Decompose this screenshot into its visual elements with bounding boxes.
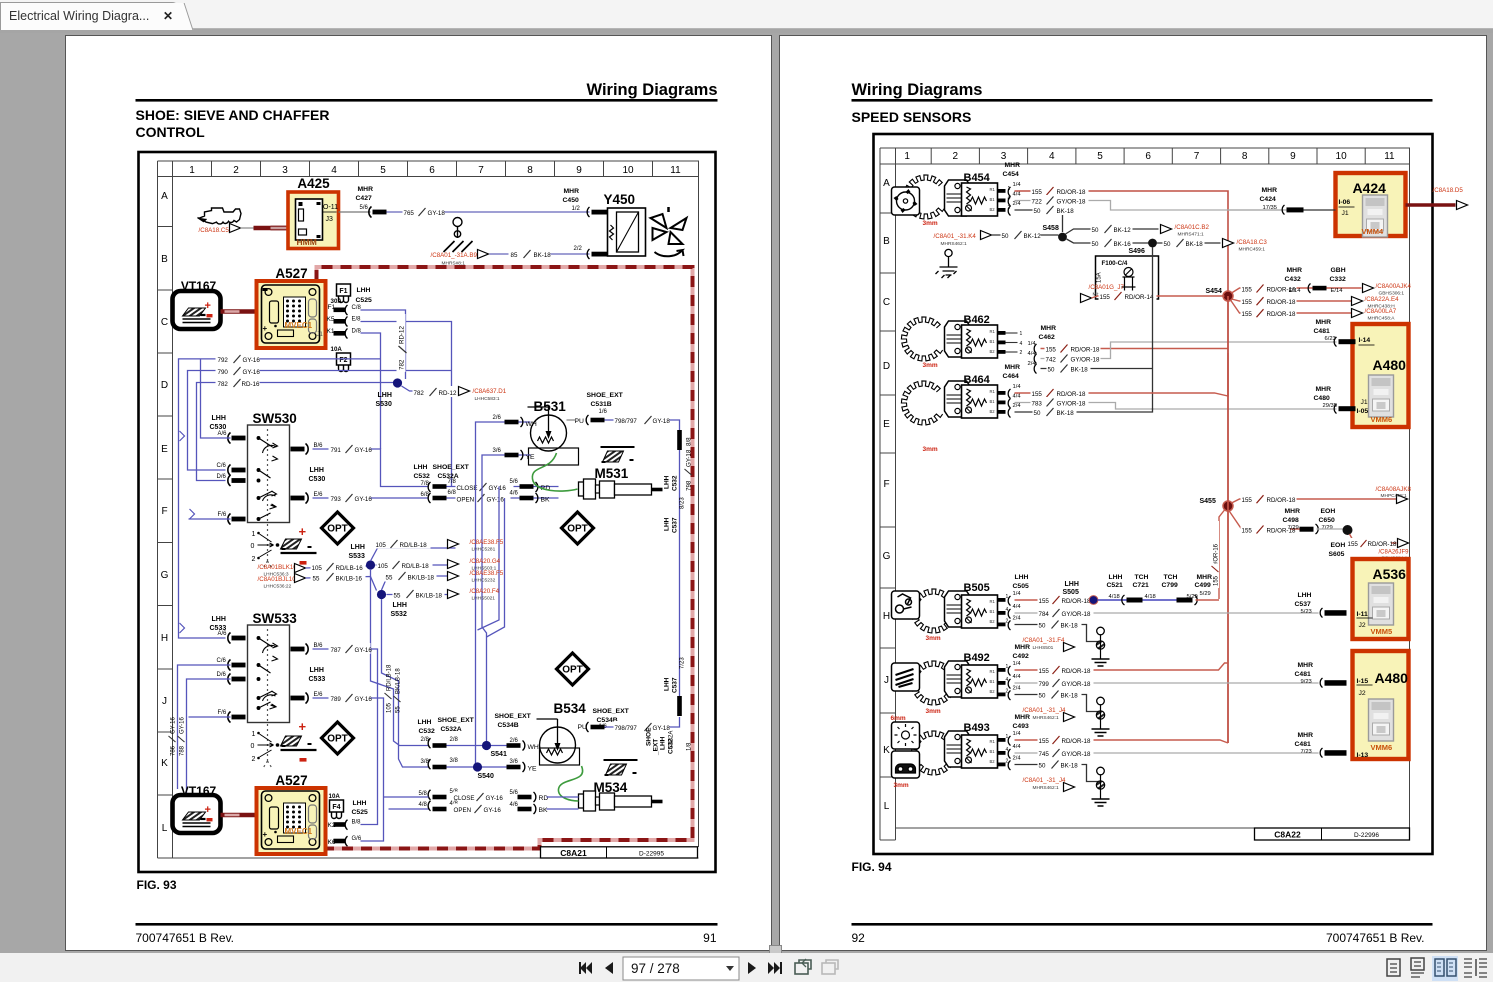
svg-text:J: J bbox=[884, 675, 889, 686]
svg-text:MHR: MHR bbox=[564, 188, 580, 195]
wire 50 BK-18 ground (B492) bbox=[1015, 695, 1101, 712]
svg-text:Wiring Diagrams: Wiring Diagrams bbox=[852, 81, 983, 99]
svg-text:D/6: D/6 bbox=[217, 474, 227, 480]
svg-text:RD/OR-18: RD/OR-18 bbox=[1057, 189, 1086, 196]
svg-text:7/23: 7/23 bbox=[1301, 749, 1312, 755]
svg-text:O-11: O-11 bbox=[323, 204, 338, 211]
svg-text:/C8AE38.F5: /C8AE38.F5 bbox=[470, 539, 504, 546]
svg-text:1: 1 bbox=[189, 165, 195, 176]
svg-text:C532: C532 bbox=[419, 728, 435, 735]
svg-text:LHHC5232: LHHC5232 bbox=[472, 578, 496, 584]
svg-text:H: H bbox=[883, 611, 890, 622]
svg-text:F2: F2 bbox=[339, 357, 347, 364]
wire 783 GY/OR-18 bbox=[1015, 403, 1337, 410]
svg-text:4/4: 4/4 bbox=[1013, 394, 1022, 400]
svg-text:K: K bbox=[883, 745, 890, 756]
rotated stack lower bbox=[677, 696, 682, 716]
svg-text:C/8: C/8 bbox=[352, 305, 362, 311]
svg-text:C650: C650 bbox=[1319, 517, 1335, 524]
svg-text:D-22996: D-22996 bbox=[1354, 832, 1379, 839]
svg-text:RD/LB-18: RD/LB-18 bbox=[400, 542, 428, 549]
svg-text:155: 155 bbox=[1242, 497, 1253, 504]
svg-text:SHOE_EXT: SHOE_EXT bbox=[587, 392, 624, 399]
svg-text:GY-18: GY-18 bbox=[653, 418, 671, 425]
svg-text:GY-16: GY-16 bbox=[171, 717, 177, 734]
svg-text:S533: S533 bbox=[349, 553, 365, 560]
svg-text:2: 2 bbox=[252, 756, 256, 763]
svg-text:4/6: 4/6 bbox=[510, 802, 519, 808]
speed sensor B454 group bbox=[903, 175, 944, 219]
svg-text:L: L bbox=[162, 823, 168, 834]
rotated labels on verticals bbox=[385, 664, 393, 713]
svg-text:LHHC5281: LHHC5281 bbox=[472, 547, 496, 553]
connector MHR C481 (I-15) bbox=[1295, 662, 1314, 678]
svg-text:HMM: HMM bbox=[297, 237, 317, 247]
wire K1-D8 to 792 run bbox=[361, 333, 381, 449]
svg-text:155: 155 bbox=[1032, 391, 1043, 398]
pin E/6 wire 793 bbox=[291, 493, 309, 504]
svg-text:B493: B493 bbox=[964, 722, 990, 734]
svg-text:C450: C450 bbox=[563, 197, 579, 204]
wire 722 GY/OR-18 bbox=[1015, 201, 1298, 211]
svg-text:BK: BK bbox=[539, 807, 549, 814]
svg-text:S605: S605 bbox=[1329, 551, 1345, 558]
svg-text:SW530: SW530 bbox=[253, 411, 297, 426]
svg-text:8: 8 bbox=[1242, 151, 1248, 162]
svg-text:4/4: 4/4 bbox=[1013, 192, 1022, 198]
connector MHR C450 bbox=[563, 188, 580, 204]
svg-text:155: 155 bbox=[1242, 528, 1253, 535]
svg-text:3: 3 bbox=[282, 165, 288, 176]
svg-text:S541: S541 bbox=[491, 751, 507, 758]
svg-text:4/4: 4/4 bbox=[1013, 744, 1022, 750]
switch SW533 bbox=[210, 616, 227, 632]
svg-text:PU: PU bbox=[575, 418, 585, 425]
wire 155 (B464) to bus bbox=[1015, 353, 1229, 396]
wire battery feed to A425 bbox=[241, 227, 255, 229]
wire 50 BK-18 (B454) bbox=[1015, 210, 1063, 232]
svg-text:GY/OR-18: GY/OR-18 bbox=[1062, 751, 1091, 758]
wire 745 GY/OR-18 to A480 I-13 bbox=[1015, 752, 1319, 754]
svg-text:EOH: EOH bbox=[1331, 542, 1346, 549]
svg-text:3/8: 3/8 bbox=[450, 758, 459, 764]
wires C/6 D/6 down to lower close/open bbox=[178, 665, 231, 799]
wire 790 GY-16 bbox=[188, 371, 452, 471]
svg-text:J1: J1 bbox=[1342, 210, 1349, 217]
svg-text:/C8A20.F4: /C8A20.F4 bbox=[470, 588, 500, 595]
svg-text:SHOE_EXT: SHOE_EXT bbox=[593, 708, 630, 715]
connector MHR C499 bbox=[1195, 574, 1213, 589]
svg-text:1: 1 bbox=[252, 531, 256, 538]
svg-text:VMM4: VMM4 bbox=[1362, 227, 1384, 236]
svg-text:4/4: 4/4 bbox=[1013, 604, 1022, 610]
svg-text:LHHS5021: LHHS5021 bbox=[472, 596, 496, 602]
wire 50 BK-18 ground (B505) bbox=[1015, 625, 1101, 642]
svg-text:A425: A425 bbox=[297, 176, 330, 191]
svg-text:B492: B492 bbox=[964, 652, 990, 664]
A424 output wire bbox=[1406, 203, 1456, 207]
svg-text:55: 55 bbox=[386, 575, 393, 582]
svg-text:1/2: 1/2 bbox=[572, 206, 581, 212]
svg-text:2/6: 2/6 bbox=[510, 738, 519, 744]
svg-text:SHOE: SHOE bbox=[646, 727, 653, 746]
combine harvester icon bbox=[198, 208, 242, 224]
svg-text:10: 10 bbox=[622, 165, 634, 176]
svg-text:155: 155 bbox=[1039, 738, 1050, 745]
svg-text:/C8A01_-31_J4: /C8A01_-31_J4 bbox=[1023, 777, 1067, 784]
svg-text:A527: A527 bbox=[275, 773, 307, 788]
svg-text:Wiring Diagrams: Wiring Diagrams bbox=[587, 81, 718, 99]
svg-text:BK-12: BK-12 bbox=[1024, 233, 1042, 240]
svg-text:10: 10 bbox=[1336, 151, 1348, 162]
svg-text:RD/OR-18: RD/OR-18 bbox=[1057, 391, 1086, 398]
svg-text:+: + bbox=[263, 324, 268, 333]
svg-text:C481: C481 bbox=[1295, 671, 1311, 678]
svg-text:GY-16: GY-16 bbox=[355, 647, 373, 654]
svg-text:BK-18: BK-18 bbox=[1057, 208, 1075, 215]
svg-text:1/4: 1/4 bbox=[1013, 731, 1022, 737]
svg-text:RD/OR-18: RD/OR-18 bbox=[1267, 311, 1296, 318]
svg-text:/C8A01_-31A.B9: /C8A01_-31A.B9 bbox=[431, 252, 478, 259]
svg-text:/C8A18.D5: /C8A18.D5 bbox=[1433, 187, 1464, 194]
svg-text:2/2: 2/2 bbox=[574, 246, 583, 252]
svg-text:C424: C424 bbox=[1260, 196, 1276, 203]
svg-text:C505: C505 bbox=[1013, 583, 1029, 590]
connector MHR C480 (I-05) bbox=[1314, 386, 1332, 402]
title block C8A22 bbox=[1255, 828, 1410, 840]
svg-text:11: 11 bbox=[670, 165, 681, 176]
svg-text:F/6: F/6 bbox=[218, 710, 227, 716]
svg-text:105: 105 bbox=[312, 565, 323, 572]
svg-text:BK-18: BK-18 bbox=[1186, 241, 1204, 248]
option diamond bbox=[322, 512, 354, 544]
grid row letters bbox=[161, 191, 169, 834]
svg-text:7/23: 7/23 bbox=[680, 657, 686, 669]
svg-text:97 / 278: 97 / 278 bbox=[631, 961, 680, 976]
svg-text:5/6: 5/6 bbox=[510, 790, 519, 796]
svg-text:50: 50 bbox=[1092, 227, 1099, 234]
svg-text:C530: C530 bbox=[309, 476, 326, 483]
ground node (row B) bbox=[444, 218, 473, 253]
wire 784 GY/OR-18 to A536 bbox=[1015, 612, 1319, 614]
svg-text:7/29: 7/29 bbox=[1322, 525, 1333, 531]
svg-text:3mm: 3mm bbox=[894, 782, 909, 789]
svg-text:4: 4 bbox=[1020, 341, 1023, 347]
right page bbox=[779, 35, 1487, 951]
bottom toolbar bbox=[0, 953, 1493, 982]
junction S530 bbox=[393, 378, 402, 387]
svg-text:MHR: MHR bbox=[1262, 187, 1278, 194]
svg-text:C464: C464 bbox=[1003, 373, 1019, 380]
wire K5-E8 down to CLOSE bbox=[361, 322, 452, 488]
footer rule bbox=[136, 923, 718, 926]
diagram outer frame bbox=[874, 134, 1433, 854]
svg-text:I-14: I-14 bbox=[1359, 337, 1371, 344]
svg-text:C427: C427 bbox=[356, 195, 372, 202]
svg-text:4/18: 4/18 bbox=[1109, 594, 1120, 600]
svg-text:E/14: E/14 bbox=[1289, 288, 1302, 294]
arrow into A425 bbox=[230, 224, 241, 233]
svg-text:/C8A01C.B2: /C8A01C.B2 bbox=[1175, 224, 1210, 231]
svg-text:SHOE_EXT: SHOE_EXT bbox=[438, 717, 475, 724]
wire 55 BK/LB-18 (lower) bbox=[387, 594, 456, 596]
svg-text:LHH: LHH bbox=[414, 464, 428, 471]
S454 branch 3 bbox=[1231, 300, 1352, 313]
svg-text:788: 788 bbox=[180, 745, 186, 756]
grid column numbers bbox=[189, 165, 681, 176]
svg-text:E: E bbox=[161, 444, 168, 455]
svg-text:1: 1 bbox=[252, 731, 256, 738]
S455 branch right bbox=[1232, 499, 1397, 503]
svg-text:B: B bbox=[883, 236, 890, 247]
svg-text:CLOSE: CLOSE bbox=[457, 485, 478, 492]
svg-text:C332: C332 bbox=[1330, 276, 1346, 283]
left page bbox=[65, 35, 772, 951]
svg-text:J: J bbox=[162, 696, 167, 707]
svg-text:LHH: LHH bbox=[310, 467, 324, 474]
svg-text:4/4: 4/4 bbox=[1013, 674, 1022, 680]
splice LHH S533 bbox=[349, 544, 365, 560]
S454 branch 2 bbox=[1232, 299, 1352, 301]
svg-text:A: A bbox=[883, 178, 890, 189]
svg-text:MHRS462:1: MHRS462:1 bbox=[1033, 715, 1059, 721]
svg-text:LHH: LHH bbox=[212, 616, 226, 623]
svg-text:S540: S540 bbox=[478, 773, 494, 780]
svg-text:105: 105 bbox=[378, 563, 389, 570]
svg-text:FIG. 94: FIG. 94 bbox=[852, 860, 892, 874]
svg-text:I-13: I-13 bbox=[1357, 752, 1369, 759]
svg-text:50: 50 bbox=[1034, 410, 1041, 417]
svg-text:VMM6: VMM6 bbox=[1371, 415, 1393, 424]
svg-text:GBH: GBH bbox=[1331, 267, 1346, 274]
svg-text:50: 50 bbox=[1039, 623, 1046, 630]
svg-text:798: 798 bbox=[686, 480, 693, 491]
svg-text:6mm: 6mm bbox=[891, 715, 906, 722]
svg-text:GY-16: GY-16 bbox=[355, 496, 373, 503]
svg-text:LHH: LHH bbox=[664, 475, 671, 489]
svg-text:MHPC498:1: MHPC498:1 bbox=[1381, 493, 1407, 499]
wire 55 BK/LB-18 (upper) bbox=[382, 576, 456, 590]
svg-text:C480: C480 bbox=[1314, 395, 1330, 402]
svg-text:155: 155 bbox=[1100, 294, 1111, 301]
svg-text:50: 50 bbox=[1034, 208, 1041, 215]
svg-text:TCH: TCH bbox=[1164, 574, 1178, 581]
svg-text:798/797: 798/797 bbox=[615, 725, 638, 732]
svg-text:C454: C454 bbox=[1003, 171, 1019, 178]
svg-text:15A: 15A bbox=[1097, 272, 1103, 283]
svg-text:LHH: LHH bbox=[418, 719, 432, 726]
svg-text:765: 765 bbox=[404, 210, 415, 217]
BK vertical from S496 bbox=[1152, 247, 1154, 410]
svg-text:S454: S454 bbox=[1206, 288, 1222, 295]
svg-text:SHOE_EXT: SHOE_EXT bbox=[495, 713, 532, 720]
svg-text:D/6: D/6 bbox=[217, 672, 227, 678]
pin B/6 wire 791 bbox=[291, 444, 309, 455]
pdf viewer tab bar bbox=[0, 0, 1493, 33]
footer rule bbox=[852, 923, 1433, 926]
svg-text:782: 782 bbox=[399, 359, 406, 370]
svg-text:_EXT: _EXT bbox=[653, 739, 660, 756]
pin B/6 wire 787 bbox=[291, 644, 309, 655]
svg-text:RD/OR-18: RD/OR-18 bbox=[1062, 668, 1091, 675]
svg-text:S530: S530 bbox=[376, 401, 392, 408]
svg-text:2: 2 bbox=[1020, 350, 1023, 356]
svg-text:B505: B505 bbox=[964, 582, 990, 594]
speed sensor B505 group bbox=[911, 589, 952, 633]
svg-text:MHR: MHR bbox=[1298, 732, 1314, 739]
ground (B505) bbox=[1092, 627, 1110, 666]
junction S496 bbox=[1148, 239, 1157, 248]
svg-text:BK-18: BK-18 bbox=[1061, 763, 1079, 770]
svg-text:F100-C/4: F100-C/4 bbox=[1102, 260, 1128, 267]
right edge rotated connector stack (upper) bbox=[674, 430, 685, 455]
svg-text:105: 105 bbox=[387, 702, 393, 713]
svg-text:SW533: SW533 bbox=[253, 611, 298, 626]
svg-text:MHR: MHR bbox=[1005, 364, 1021, 371]
svg-text:1: 1 bbox=[1020, 331, 1023, 337]
svg-text:E/6: E/6 bbox=[314, 692, 324, 698]
svg-text:105: 105 bbox=[376, 542, 387, 549]
svg-text:1/4: 1/4 bbox=[1013, 384, 1022, 390]
svg-text:EOH: EOH bbox=[1321, 508, 1336, 515]
svg-text:B534: B534 bbox=[554, 701, 587, 716]
svg-text:50: 50 bbox=[1092, 241, 1099, 248]
svg-text:/C8A01G_J7: /C8A01G_J7 bbox=[1089, 284, 1125, 291]
svg-text:C8A22: C8A22 bbox=[1274, 830, 1301, 840]
svg-text:4: 4 bbox=[1049, 151, 1055, 162]
svg-text:4: 4 bbox=[331, 165, 337, 176]
svg-text:4/18: 4/18 bbox=[1145, 594, 1156, 600]
svg-text:155: 155 bbox=[1242, 311, 1253, 318]
svg-text:1/4: 1/4 bbox=[1013, 661, 1022, 667]
svg-text:BK-18: BK-18 bbox=[1061, 623, 1079, 630]
wire 782 RD-12 to arrow bbox=[402, 386, 455, 391]
wire 798/797 GY-18 bbox=[605, 420, 680, 430]
svg-text:S532: S532 bbox=[391, 611, 407, 618]
svg-text:GY-16: GY-16 bbox=[487, 497, 505, 504]
svg-text:A527: A527 bbox=[275, 266, 307, 281]
svg-text:GY/OR-18: GY/OR-18 bbox=[1057, 401, 1086, 408]
svg-text:S505: S505 bbox=[1063, 589, 1079, 596]
svg-text:GY-16: GY-16 bbox=[243, 357, 261, 364]
svg-text:A480: A480 bbox=[1373, 357, 1407, 373]
svg-text:J3: J3 bbox=[326, 216, 334, 223]
svg-text:6: 6 bbox=[1145, 151, 1151, 162]
svg-text:91: 91 bbox=[703, 931, 717, 945]
fuse F1 30A bbox=[337, 284, 351, 303]
svg-text:7: 7 bbox=[1194, 151, 1200, 162]
connector MHR C427 bbox=[356, 186, 374, 202]
svg-text:5/23: 5/23 bbox=[1301, 609, 1312, 615]
svg-text:3/6: 3/6 bbox=[493, 448, 502, 454]
wire 155 (B505) to S505 bbox=[1015, 599, 1094, 601]
S455 drop to C499/B505 row bbox=[1219, 510, 1225, 599]
svg-text:/C8A08AJK8: /C8A08AJK8 bbox=[1376, 486, 1412, 493]
svg-text:TCH: TCH bbox=[1135, 574, 1149, 581]
wire 799 GY/OR-18 to A480 I-15 bbox=[1015, 682, 1319, 684]
svg-text:793: 793 bbox=[331, 496, 342, 503]
svg-text:LHHS501: LHHS501 bbox=[1033, 645, 1054, 651]
svg-text:CONTROL: CONTROL bbox=[136, 124, 206, 140]
riser A/6 up bbox=[189, 359, 231, 519]
svg-text:0: 0 bbox=[251, 743, 255, 750]
svg-text:2: 2 bbox=[233, 165, 239, 176]
svg-text:OPEN: OPEN bbox=[454, 807, 472, 814]
svg-text:2/4: 2/4 bbox=[1013, 201, 1022, 207]
svg-text:LHH: LHH bbox=[1298, 592, 1312, 599]
svg-text:J1: J1 bbox=[1361, 399, 1368, 406]
svg-text:2/4: 2/4 bbox=[1013, 616, 1022, 622]
svg-text:I-15: I-15 bbox=[1357, 678, 1369, 685]
svg-text:E/6: E/6 bbox=[314, 492, 324, 498]
svg-text:Y450: Y450 bbox=[604, 192, 636, 207]
svg-text:/C8A18.C5: /C8A18.C5 bbox=[199, 227, 230, 234]
svg-text:RD/OR-18: RD/OR-18 bbox=[1062, 738, 1091, 745]
svg-text:BK-18: BK-18 bbox=[1061, 693, 1079, 700]
CAN bus dashed (dark red) bbox=[317, 267, 693, 849]
svg-text:C532A: C532A bbox=[669, 731, 675, 749]
svg-text:C492: C492 bbox=[1013, 653, 1029, 660]
svg-text:SHOE: SIEVE AND CHAFFER: SHOE: SIEVE AND CHAFFER bbox=[136, 107, 330, 123]
svg-text:LHH: LHH bbox=[1015, 574, 1029, 581]
wire 50 BK-18 (B464) bbox=[1015, 408, 1153, 412]
svg-text:10A: 10A bbox=[331, 346, 343, 353]
svg-text:/C8A01_-31_J4: /C8A01_-31_J4 bbox=[1023, 707, 1067, 714]
svg-text:C537: C537 bbox=[672, 517, 679, 533]
svg-text:50: 50 bbox=[1039, 763, 1046, 770]
svg-text:C498: C498 bbox=[1283, 517, 1299, 524]
fan icon bbox=[651, 207, 687, 256]
svg-text:S455: S455 bbox=[1200, 498, 1216, 505]
svg-text:C532: C532 bbox=[672, 475, 679, 491]
svg-text:RD/LB-16: RD/LB-16 bbox=[336, 565, 364, 572]
svg-text:155: 155 bbox=[1348, 541, 1359, 548]
svg-text:LHH: LHH bbox=[1109, 574, 1123, 581]
connector MHR C462 bbox=[1039, 325, 1057, 341]
svg-text:C533: C533 bbox=[309, 676, 326, 683]
speed sensor B492 group bbox=[911, 661, 952, 705]
svg-text:11: 11 bbox=[1384, 151, 1395, 162]
verticals from CLOSE/OPEN to lower bbox=[478, 487, 505, 638]
svg-text:BK/LB-18: BK/LB-18 bbox=[396, 668, 402, 694]
svg-text:10A: 10A bbox=[329, 793, 341, 800]
switch SW530 bbox=[210, 415, 227, 431]
svg-text:3/6: 3/6 bbox=[510, 759, 519, 765]
svg-text:E/14: E/14 bbox=[1331, 288, 1344, 294]
svg-text:5/6: 5/6 bbox=[360, 205, 369, 211]
svg-text:A480: A480 bbox=[1375, 670, 1409, 686]
svg-text:C/6: C/6 bbox=[217, 463, 227, 469]
wire 798/797 GY-18 (lower) bbox=[605, 717, 680, 727]
svg-text:M531: M531 bbox=[595, 466, 629, 481]
pins B454 bbox=[998, 189, 1006, 193]
svg-text:MHRS471:1: MHRS471:1 bbox=[1178, 232, 1204, 238]
svg-text:50: 50 bbox=[1164, 241, 1171, 248]
svg-text:799: 799 bbox=[1039, 681, 1050, 688]
svg-text:+: + bbox=[299, 719, 307, 734]
svg-text:FIG. 93: FIG. 93 bbox=[137, 878, 177, 892]
svg-text:J1: J1 bbox=[317, 332, 324, 338]
wire 55 BK/LB-16 bbox=[306, 577, 377, 591]
svg-text:C499: C499 bbox=[1195, 582, 1211, 589]
wire 50 BK-18 to /C8A18.C3 bbox=[1157, 242, 1221, 244]
svg-text:MHR: MHR bbox=[1285, 508, 1301, 515]
svg-text:4/8: 4/8 bbox=[419, 802, 428, 808]
speed sensor B464 group bbox=[901, 381, 942, 425]
wire 765 GY-18 bbox=[387, 211, 590, 213]
pin E/6 wire 789 bbox=[291, 693, 309, 704]
chevrons bbox=[180, 431, 195, 633]
